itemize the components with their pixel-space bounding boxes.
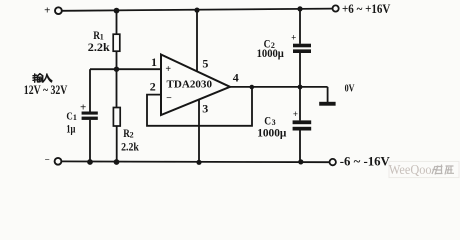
wire R2 top <box>116 69 118 107</box>
top rail wire (+V) <box>62 9 333 11</box>
svg-text:1000μ: 1000μ <box>257 46 284 60</box>
wire pin2 feedback loop <box>147 87 252 126</box>
svg-text:2: 2 <box>150 79 156 93</box>
node bottom rail / C1 <box>87 159 93 165</box>
svg-text:4: 4 <box>233 70 239 84</box>
svg-text:3: 3 <box>202 102 208 116</box>
node R1/R2/pin1 <box>114 67 119 72</box>
wire R1 bottom <box>116 51 118 70</box>
node bottom rail / R2 <box>114 159 120 165</box>
node top rail / C2 <box>297 6 302 11</box>
node top rail / pin 5 <box>194 8 199 13</box>
svg-text:+: + <box>291 33 296 43</box>
svg-text:-6 ~ -16V: -6 ~ -16V <box>340 154 390 168</box>
svg-text:1μ: 1μ <box>66 124 76 136</box>
node output / feedback <box>250 85 255 90</box>
watermark box <box>389 161 459 177</box>
node bottom rail / C3 <box>298 159 303 164</box>
svg-text:1: 1 <box>151 55 157 69</box>
node output / mid rail <box>298 85 303 90</box>
terminal +6~+16V <box>333 5 339 11</box>
op-amp U1 TDA2030 triangle <box>161 55 230 116</box>
capacitor C3 <box>293 120 312 124</box>
pin 5 wire <box>196 10 198 72</box>
wire C1 bottom <box>89 120 91 163</box>
label input 输入 <box>33 74 52 83</box>
wire mid rail top (C2 branch) <box>299 9 301 44</box>
svg-text:+: + <box>293 109 298 119</box>
svg-text:−: − <box>166 93 172 104</box>
pin 3 wire <box>198 100 200 163</box>
svg-text:+: + <box>44 5 50 17</box>
svg-text:WeeQoo: WeeQoo <box>389 162 432 177</box>
wire output pin4 <box>229 86 328 88</box>
svg-text:+6 ~ +16V: +6 ~ +16V <box>342 2 390 16</box>
svg-text:C: C <box>66 111 72 123</box>
watermark 维库 <box>432 165 454 175</box>
bottom rail wire (-V) <box>62 160 330 163</box>
terminal + (input left) <box>55 7 62 14</box>
svg-text:1: 1 <box>73 113 77 122</box>
node top rail / R1 <box>114 8 120 14</box>
svg-text:1000μ: 1000μ <box>257 125 286 139</box>
svg-text:0V: 0V <box>345 83 355 95</box>
node bottom rail / pin 3 <box>196 160 201 165</box>
svg-text:2.2k: 2.2k <box>88 40 110 54</box>
wire mid rail between C2 and C3 <box>299 53 301 120</box>
wire R1 top <box>116 10 118 34</box>
svg-text:2: 2 <box>130 131 134 140</box>
wire input node to pin 1 <box>90 68 162 70</box>
capacitor C2 <box>293 44 311 48</box>
wire C1 top <box>89 69 91 112</box>
svg-text:+: + <box>165 64 171 75</box>
svg-text:5: 5 <box>202 56 208 70</box>
terminal - (input left) <box>55 158 62 165</box>
resistor R1 <box>113 34 120 51</box>
wire R2 bottom <box>116 126 118 162</box>
svg-text:12V ~ 32V: 12V ~ 32V <box>24 82 68 97</box>
ground <box>319 102 335 106</box>
terminal -6~-16V <box>330 159 336 165</box>
wire mid rail bottom <box>299 131 301 163</box>
capacitor C1 <box>82 112 98 115</box>
resistor R2 <box>113 108 120 127</box>
svg-text:TDA2030: TDA2030 <box>167 80 213 91</box>
svg-text:2.2k: 2.2k <box>121 139 139 153</box>
svg-text:−: − <box>45 155 50 165</box>
wire to ground <box>327 87 329 102</box>
